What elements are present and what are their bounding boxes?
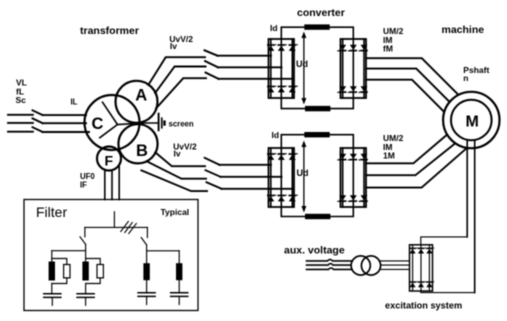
- wire supply phase 2: [8, 122, 33, 124]
- svg-text:machine: machine: [442, 24, 485, 36]
- wire supply phase 3b: [43, 131, 89, 133]
- aux wire 3: [307, 268, 353, 270]
- wire B phase 1b: [220, 164, 272, 166]
- wire B phase 3b: [222, 188, 293, 190]
- wire A phase 1b: [218, 55, 272, 57]
- switch supply phase 1: [33, 110, 43, 115]
- dc rail bottom (bottom converter): [281, 207, 353, 217]
- machine M inner circle: [451, 100, 492, 141]
- rectifier bridge U3 box: [269, 148, 295, 207]
- dc rail top (bottom converter): [281, 135, 353, 148]
- svg-text:Typical: Typical: [161, 207, 190, 217]
- bridge U2 legs: [343, 39, 364, 98]
- inverter bridge U4 box: [341, 148, 367, 207]
- field link bottom: [421, 291, 475, 293]
- filter left drop: [84, 227, 86, 236]
- inverter bridge U2 box: [341, 39, 367, 98]
- wire U4 output 2: [366, 144, 455, 176]
- svg-text:B: B: [136, 142, 148, 160]
- svg-text:screen: screen: [169, 119, 194, 128]
- svg-text:Ud: Ud: [296, 59, 308, 69]
- wire U2 output 2: [366, 69, 449, 102]
- wye symbol in C: [100, 102, 143, 138]
- filter right drop 2: [146, 245, 148, 263]
- svg-text:Iv: Iv: [174, 149, 181, 159]
- filter leg C capacitor: [137, 280, 156, 304]
- aux wire 3b: [380, 268, 410, 270]
- machine field lead right: [474, 140, 476, 293]
- filter leg B RL loop: [86, 259, 101, 265]
- bridge U1 legs: [271, 39, 293, 98]
- filter right sub-bus: [147, 250, 180, 252]
- excitation bridge box: [410, 245, 433, 291]
- bridge U2 thyristors top row: [337, 45, 368, 51]
- filter box: [24, 200, 198, 311]
- wire B phase 2: [147, 161, 206, 178]
- switch A phase 2: [205, 61, 218, 67]
- filter leg D capacitor: [170, 280, 189, 304]
- bridge U1 thyristors top row: [267, 45, 298, 51]
- excitation thyristors top row: [409, 248, 417, 253]
- transformer winding F: [97, 147, 121, 171]
- switch B phase 1: [205, 158, 220, 165]
- bridge U3 legs: [271, 148, 293, 207]
- excitation thyristors bottom row: [409, 282, 417, 287]
- switch B phase 2: [206, 170, 221, 177]
- svg-text:IF: IF: [80, 180, 87, 189]
- bridge U1 thyristors bottom row: [267, 86, 298, 92]
- filter leg B resistor: [97, 265, 103, 278]
- wire U4 output 1: [366, 135, 447, 163]
- dc rail bottom: [281, 98, 353, 109]
- filter leg D lead: [178, 251, 180, 263]
- svg-text:Sc: Sc: [16, 95, 27, 105]
- filter right drop: [146, 227, 148, 237]
- aux wire 1: [307, 259, 353, 261]
- svg-text:F: F: [105, 153, 114, 169]
- wire A phase 1: [148, 57, 205, 85]
- svg-text:fM: fM: [383, 43, 393, 53]
- wire B phase 1: [155, 152, 205, 166]
- wire A phase 2b: [218, 66, 282, 68]
- filter leg A resistor: [64, 265, 70, 278]
- filter leg C inductor: [143, 263, 149, 280]
- bridge U2 thyristors bottom row: [337, 86, 368, 92]
- svg-text:Ud: Ud: [297, 168, 309, 178]
- bridge U4 thyristors top row: [337, 154, 368, 160]
- field link top: [421, 237, 467, 245]
- transformer winding B: [118, 124, 157, 163]
- svg-text:converter: converter: [297, 7, 345, 19]
- wire A phase 2: [155, 67, 205, 94]
- filter left switch: [80, 237, 86, 245]
- filter left sub-bus: [52, 250, 86, 252]
- svg-text:Iv: Iv: [170, 41, 177, 51]
- wire U2 output 3: [366, 80, 444, 112]
- svg-text:n: n: [463, 73, 468, 83]
- svg-text:1M: 1M: [383, 151, 395, 161]
- wire A phase 3b: [219, 78, 293, 80]
- svg-text:excitation system: excitation system: [385, 301, 462, 311]
- aux wire 1b: [379, 260, 409, 262]
- wire supply phase 1b: [43, 114, 86, 116]
- switch A phase 3: [206, 73, 219, 79]
- svg-text:Id: Id: [270, 23, 278, 33]
- svg-text:A: A: [135, 87, 147, 105]
- hatch marks: [121, 222, 137, 234]
- filter leg A RL loop: [52, 259, 67, 265]
- dc rail top: [281, 27, 353, 39]
- wire U2 output 1: [366, 58, 458, 94]
- dc reactor L2: [305, 106, 330, 111]
- wire U4 output 3: [366, 148, 467, 187]
- switch A phase 1: [205, 50, 218, 55]
- filter left drop 2: [85, 244, 87, 262]
- filter bus: [85, 226, 147, 228]
- filter feed stub: [113, 212, 115, 228]
- filter leg B capacitor: [76, 284, 95, 306]
- svg-text:C: C: [92, 115, 104, 133]
- bridge U4 thyristors bottom row: [337, 195, 368, 201]
- svg-text:IL: IL: [71, 98, 78, 107]
- transformer winding A: [116, 81, 158, 123]
- filter leg A lead: [51, 251, 53, 262]
- dc reactor L3: [304, 132, 329, 137]
- aux transformer T2 circle 2: [361, 256, 380, 275]
- filter leg B inductor: [82, 262, 88, 281]
- wire supply phase 2b: [43, 122, 86, 124]
- aux wire 2b: [381, 264, 410, 266]
- svg-text:aux. voltage: aux. voltage: [284, 245, 345, 257]
- switch supply phase 3: [33, 127, 43, 132]
- svg-text:M: M: [466, 114, 479, 131]
- wire A phase 3: [156, 78, 206, 108]
- switch B phase 3: [207, 182, 222, 189]
- filter leg A inductor: [49, 262, 55, 281]
- screen symbol bars: [159, 113, 165, 132]
- Ud arrow (bottom converter): [301, 141, 306, 213]
- bridge U4 legs: [343, 148, 364, 207]
- switch supply phase 2: [33, 118, 43, 123]
- rectifier bridge U1 box: [269, 39, 295, 98]
- svg-text:transformer: transformer: [80, 25, 139, 37]
- wire supply phase 3: [8, 131, 33, 133]
- svg-text:Filter: Filter: [36, 204, 67, 220]
- excitation bridge legs: [413, 245, 430, 291]
- F winding lead 2: [111, 170, 113, 199]
- transformer winding C: [85, 95, 140, 150]
- aux transformer T2 circle 1: [351, 256, 370, 275]
- machine M outer circle: [443, 92, 499, 148]
- filter leg A capacitor: [43, 284, 62, 306]
- aux wire 2: [307, 264, 352, 266]
- F winding lead 1: [104, 170, 106, 200]
- dc reactor L1: [304, 24, 329, 29]
- filter leg D inductor: [176, 263, 182, 280]
- wire B phase 3: [141, 170, 207, 191]
- wire B phase 2b: [221, 176, 282, 178]
- screen tap wire: [143, 122, 158, 124]
- machine field lead left: [466, 140, 468, 237]
- wire supply phase 1: [8, 114, 33, 116]
- F winding lead 3: [118, 165, 120, 200]
- filter right switch: [141, 238, 146, 245]
- bridge U3 thyristors bottom row: [267, 195, 298, 201]
- bridge U3 thyristors top row: [267, 154, 298, 160]
- Ud arrow (top converter): [301, 32, 306, 105]
- svg-text:Id: Id: [272, 130, 280, 140]
- dc reactor L4: [305, 214, 330, 219]
